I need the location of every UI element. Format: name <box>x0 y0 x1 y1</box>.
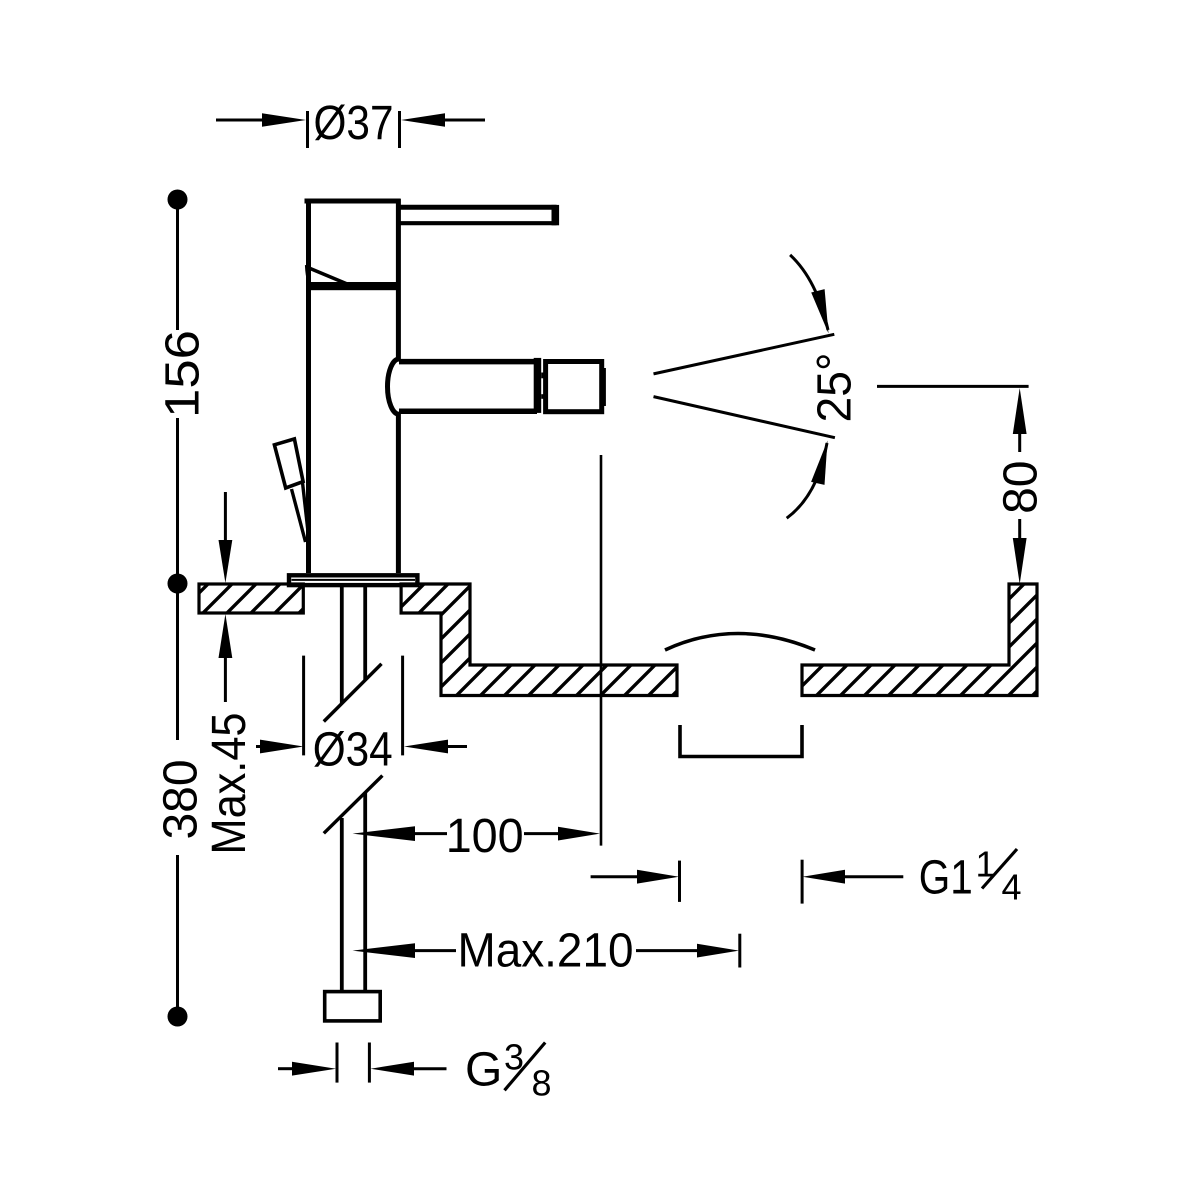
dimension Ø37 <box>216 111 485 148</box>
handle lever <box>398 207 557 223</box>
dimension G1 1/4 drain right arrow <box>801 860 804 904</box>
supply pipe right line <box>363 587 367 680</box>
bidet right L section with riser (hatched) <box>802 584 1037 696</box>
svg-text:4: 4 <box>1002 866 1022 907</box>
spout cap nubs <box>541 373 544 379</box>
pop-up drain knob <box>274 439 303 488</box>
svg-text:100: 100 <box>446 810 524 863</box>
svg-text:Max.210: Max.210 <box>458 925 634 978</box>
aerator <box>546 362 602 412</box>
angle arc lower with arrow <box>787 443 827 518</box>
svg-text:G: G <box>465 1044 502 1097</box>
faucet cartridge joint bar <box>310 282 401 290</box>
spout outlet extension line <box>600 455 603 846</box>
pipe break diagonal lower <box>324 776 383 834</box>
dimension Ø34 <box>302 656 305 756</box>
dimension 380 <box>176 584 179 741</box>
joint fillet arc <box>307 265 314 288</box>
svg-text:25°: 25° <box>809 353 862 423</box>
svg-text:Ø37: Ø37 <box>314 97 394 150</box>
dimension 156 <box>168 190 188 210</box>
svg-text:380: 380 <box>155 759 208 839</box>
svg-text:Ø34: Ø34 <box>313 724 393 777</box>
aerator rim line <box>603 368 606 406</box>
handle lever end cap <box>552 205 560 225</box>
spout end cap <box>534 358 542 413</box>
pipe break diagonal upper <box>324 664 382 722</box>
flange inner line <box>292 579 416 581</box>
dimension G1 1/4 drain left arrow <box>591 875 639 878</box>
joint diagonal line <box>307 267 352 286</box>
dimension 80 <box>877 385 1029 388</box>
base flange <box>289 575 417 585</box>
svg-text:Max.45: Max.45 <box>203 713 256 855</box>
faucet body outline <box>305 199 401 573</box>
pop-up rod <box>292 489 306 542</box>
svg-text:8: 8 <box>532 1063 552 1104</box>
supply fitting G3/8 <box>325 992 381 1021</box>
svg-text:80: 80 <box>995 461 1048 514</box>
bowl rim arc <box>665 634 815 651</box>
spray angle upper line <box>654 334 835 374</box>
angle arc upper with arrow <box>790 255 828 330</box>
supply pipe left line <box>340 587 344 703</box>
dimension Max.210 <box>353 943 416 958</box>
spout tube <box>388 359 538 414</box>
spray angle lower line <box>654 397 835 438</box>
svg-text:156: 156 <box>157 330 210 418</box>
countertop deck left (hatched) <box>199 584 303 613</box>
dimension Max.45 <box>224 492 227 544</box>
dimension 100 <box>353 826 416 841</box>
bidet body right staircase section (hatched) <box>401 584 677 696</box>
dimension G 3/8 <box>278 1067 293 1070</box>
svg-text:G1: G1 <box>919 852 973 905</box>
drain bracket <box>680 725 802 757</box>
